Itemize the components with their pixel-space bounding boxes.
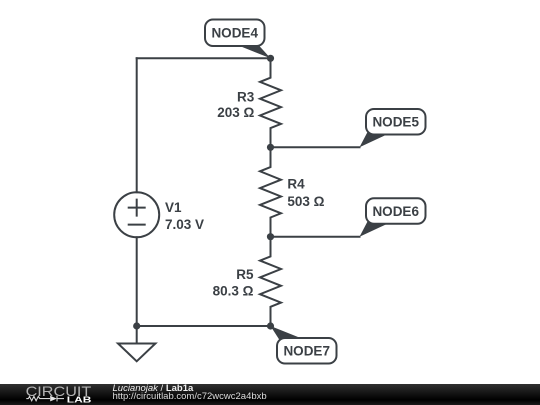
node junction dot NODE7 (267, 322, 274, 329)
svg-text:R5: R5 (236, 267, 254, 282)
wire node6 horizontal (271, 236, 360, 238)
footer bar (0, 384, 540, 405)
ground symbol (118, 344, 155, 362)
node flag NODE6 (366, 198, 426, 224)
V1 minus sign (129, 224, 145, 226)
svg-text:LAB: LAB (67, 394, 92, 404)
wire left vertical upper (136, 58, 138, 192)
CircuitLab logo (0, 384, 100, 405)
svg-text:V1: V1 (165, 200, 182, 215)
node flag NODE4 (205, 20, 265, 47)
node junction dot NODE5 (267, 144, 274, 151)
wire node5 horizontal (271, 146, 360, 148)
svg-text:NODE5: NODE5 (372, 115, 419, 130)
voltage source V1 circle (114, 192, 159, 237)
wire bottom horizontal (137, 325, 271, 327)
svg-text:R4: R4 (287, 177, 305, 192)
svg-text:203 Ω: 203 Ω (217, 105, 254, 120)
callout tail NODE4 (236, 45, 271, 59)
resistor R4 (260, 147, 281, 236)
resistor R3 (260, 58, 281, 147)
svg-text:NODE4: NODE4 (211, 26, 258, 41)
callout tail NODE5 (360, 132, 390, 147)
resistor R5 (260, 237, 281, 326)
svg-text:NODE7: NODE7 (283, 344, 330, 359)
callout tail NODE7 (271, 326, 304, 340)
node junction dot NODE4 (267, 55, 274, 62)
node flag NODE7 (277, 338, 337, 364)
wire left vertical lower (136, 237, 138, 326)
node flag NODE5 (366, 109, 426, 135)
node junction dot ground (133, 322, 140, 329)
svg-text:R3: R3 (237, 90, 255, 105)
node junction dot NODE6 (267, 233, 274, 240)
svg-text:NODE6: NODE6 (372, 204, 419, 219)
svg-text:7.03 V: 7.03 V (165, 217, 204, 232)
svg-text:503 Ω: 503 Ω (287, 194, 324, 209)
wire top horizontal (137, 57, 271, 59)
wire ground stub (136, 326, 138, 344)
V1 plus sign (129, 200, 145, 216)
svg-text:80.3 Ω: 80.3 Ω (213, 283, 254, 298)
callout tail NODE6 (360, 222, 390, 237)
